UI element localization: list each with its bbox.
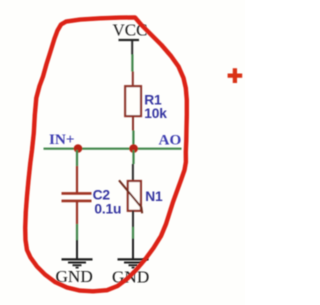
wire node to N1	[132, 150, 134, 164]
junction node at C2	[74, 144, 83, 153]
svg-text:N1: N1	[145, 189, 163, 204]
junction node at R1/N1	[129, 144, 138, 153]
gnd1 stem	[76, 240, 78, 259]
wire N1 to gnd	[132, 227, 134, 239]
svg-text:AO: AO	[159, 132, 182, 149]
wire IN+ to AO horizontal	[44, 148, 182, 150]
pin R1 bottom	[132, 116, 134, 131]
svg-text:10k: 10k	[144, 106, 167, 121]
gnd2 stem	[132, 239, 134, 259]
power port VCC bar	[119, 39, 140, 41]
annotation plus cursor	[228, 68, 243, 83]
wire C2 to gnd	[76, 224, 78, 240]
pin C2 bottom	[76, 202, 78, 225]
pin R1 top	[132, 72, 134, 87]
wire VCC to R1	[131, 55, 133, 72]
power port VCC stem	[131, 41, 133, 55]
svg-text:IN+: IN+	[49, 131, 75, 148]
ground symbol 1	[62, 259, 93, 267]
pin C2 top	[76, 166, 78, 193]
capacitor C2 bottom plate	[62, 200, 92, 203]
annotation red loop	[25, 17, 187, 291]
svg-text:0.1u: 0.1u	[94, 201, 121, 216]
pin N1 bottom	[132, 211, 134, 227]
ground symbol 2	[118, 259, 149, 267]
pin N1 top	[132, 164, 134, 181]
svg-text:C2: C2	[93, 188, 111, 203]
varistor N1 body	[128, 181, 141, 211]
wire node to C2	[76, 150, 78, 166]
capacitor C2 top plate	[62, 192, 92, 195]
wire R1 to node	[132, 131, 134, 148]
varistor N1 diagonal	[119, 180, 142, 213]
resistor R1 body	[125, 86, 141, 116]
